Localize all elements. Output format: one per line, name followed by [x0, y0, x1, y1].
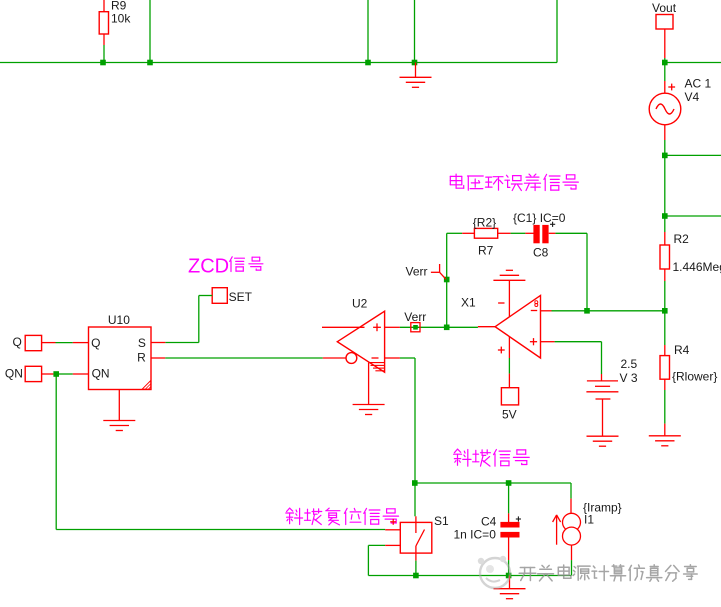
svg-text:Q: Q	[13, 335, 22, 349]
op-amp X1	[495, 295, 540, 358]
wire vertical x368	[367, 0, 369, 63]
wire X1 bottom supply	[508, 337, 510, 358]
capacitor C8	[525, 232, 533, 234]
svg-text:C4: C4	[481, 515, 497, 529]
node junction Verr hook	[444, 277, 450, 283]
voltage source V4 AC	[664, 63, 666, 82]
wire X1 plus input	[541, 341, 555, 343]
ground below U10	[118, 390, 120, 421]
resistor R9	[103, 0, 105, 12]
node junction Verr net	[444, 325, 450, 331]
svg-text:QN: QN	[92, 367, 110, 381]
resistor R2	[664, 216, 666, 232]
resistor R4	[664, 311, 666, 345]
wire Vout down	[664, 29, 666, 58]
wire U2 output (Verr net)	[385, 326, 400, 328]
port SET	[212, 288, 227, 304]
op-amp U2	[337, 311, 384, 372]
wire X1 minus input	[541, 310, 552, 312]
wire U2-minus down to ramp	[414, 358, 416, 483]
svg-text:Vout: Vout	[652, 1, 677, 15]
svg-text:SET: SET	[229, 290, 253, 304]
svg-text:S1: S1	[434, 514, 449, 528]
wire feedback left corner	[447, 232, 463, 234]
ground top rail	[415, 63, 417, 78]
node junction X1-minus/C8	[584, 308, 590, 314]
wire R pin to U2 bubble	[151, 357, 165, 359]
svg-text:R: R	[137, 351, 146, 365]
svg-text:10k: 10k	[111, 12, 131, 26]
node junction ramp-C4	[506, 480, 512, 486]
wire vertical x150	[149, 0, 151, 63]
ground below R4	[664, 424, 666, 436]
svg-text:{Rlower}: {Rlower}	[672, 370, 717, 384]
port 5V	[501, 388, 518, 405]
testpoint Verr	[411, 323, 420, 332]
latch hatch U2	[369, 362, 385, 364]
wire vertical x414	[414, 0, 416, 63]
svg-text:U10: U10	[108, 313, 130, 327]
resistor R7	[462, 232, 474, 234]
svg-text:U2: U2	[352, 296, 368, 310]
wire Q port to U10	[42, 342, 56, 344]
node junction ramp-S1	[412, 480, 418, 486]
wire V4 to R2	[664, 155, 666, 216]
inversion bubble U2	[346, 353, 357, 364]
label ramp header (magenta hanzi 斜坡信号)	[454, 449, 471, 466]
svg-text:{R2}: {R2}	[473, 215, 496, 229]
wire C8 down to X1 minus node	[586, 233, 588, 310]
node junction C4-bottom	[506, 573, 512, 579]
switch S1	[414, 483, 416, 516]
latch U10	[89, 327, 152, 390]
svg-text:ZCD: ZCD	[188, 256, 229, 278]
svg-text:R7: R7	[478, 243, 494, 257]
ground above X1 (flipped)	[493, 279, 525, 281]
wire QN down-long	[55, 374, 57, 530]
wire X1 output stub	[478, 326, 495, 328]
wire S1 feedback loop	[367, 545, 369, 575]
wire main top rail	[0, 62, 557, 64]
svg-text:R4: R4	[674, 343, 690, 357]
ground below V3	[587, 435, 619, 437]
node junction top-3	[365, 60, 371, 66]
svg-text:5V: 5V	[502, 407, 517, 421]
svg-text:V 3: V 3	[620, 371, 638, 385]
svg-text:S: S	[138, 336, 146, 350]
svg-text:R2: R2	[674, 232, 690, 246]
current source I1	[570, 483, 572, 499]
wire SET to S pin	[199, 295, 212, 297]
svg-text:Verr: Verr	[406, 264, 428, 278]
wire bottom rail	[368, 575, 571, 577]
node junction above R2	[662, 213, 668, 219]
node junction QN	[53, 371, 59, 377]
svg-text:Verr: Verr	[404, 310, 426, 324]
node junction R2-R4	[662, 308, 668, 314]
svg-text:Q: Q	[91, 336, 100, 350]
label error-signal header (magenta hanzi 电压环误差信号)	[450, 174, 463, 188]
wire ramp rail	[415, 482, 571, 484]
node junction top-1	[100, 60, 106, 66]
label X1 vminus pin	[498, 302, 504, 304]
svg-text:AC 1: AC 1	[685, 77, 712, 91]
svg-text:{C1} IC=0: {C1} IC=0	[513, 211, 566, 225]
node junction below V4	[662, 153, 668, 159]
ground below U2	[368, 363, 370, 405]
label ramp-reset header (magenta hanzi 斜坡复位信号)	[286, 508, 303, 524]
voltage source V3 battery	[587, 380, 618, 382]
wire QN port to U10	[42, 373, 54, 375]
svg-text:I1: I1	[584, 513, 594, 527]
node junction top-2	[147, 60, 153, 66]
ground bottom center	[509, 576, 511, 589]
latch hatch U10	[142, 381, 151, 390]
watermark text (开关电源计算仿真分享)	[519, 568, 536, 581]
svg-text:1.446Meg: 1.446Meg	[673, 260, 721, 274]
node junction top-4	[412, 60, 418, 66]
svg-text:V4: V4	[685, 90, 700, 104]
node junction S1-bottom	[413, 573, 419, 579]
probe hook Verr	[431, 271, 440, 273]
svg-text:2.5: 2.5	[621, 357, 638, 371]
svg-text:1n IC=0: 1n IC=0	[454, 528, 497, 542]
node junction Vout	[662, 60, 668, 66]
label X1 vplus pin	[498, 349, 505, 351]
capacitor C4	[508, 483, 510, 513]
watermark logo	[478, 556, 510, 588]
wire U2 plus stub (floating)	[322, 326, 365, 328]
svg-text:C8: C8	[533, 246, 549, 260]
wire U2 minus input	[385, 357, 400, 359]
svg-text:X1: X1	[461, 296, 476, 310]
svg-text:QN: QN	[5, 367, 23, 381]
